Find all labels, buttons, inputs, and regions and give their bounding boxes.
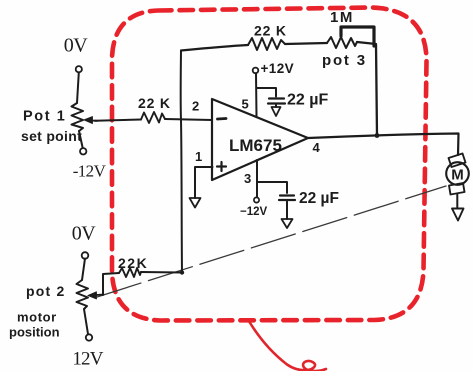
svg-text:1M: 1M: [330, 9, 354, 26]
svg-text:22 µF: 22 µF: [299, 190, 339, 207]
resistor 22K (from pot 2): [119, 268, 141, 277]
motor M top brush: [449, 154, 466, 168]
svg-text:−12V: −12V: [240, 206, 268, 218]
pot 1 resistor body: [72, 103, 84, 131]
wire feedback mid: [285, 43, 327, 44]
motor ground wire: [456, 194, 458, 209]
wire pot1 wiper to 22K: [95, 120, 141, 121]
wire pot1 bottom: [79, 131, 83, 148]
svg-text:Pot 1: Pot 1: [23, 109, 66, 125]
svg-text:set point: set point: [21, 128, 82, 144]
svg-text:motor: motor: [17, 310, 57, 325]
svg-text:1: 1: [195, 149, 202, 164]
pot 3 wiper link: [341, 27, 374, 46]
svg-text:5: 5: [242, 97, 249, 112]
pot 3 resistor body (1M): [327, 37, 357, 48]
motor bottom brush: [449, 183, 465, 195]
svg-text:-12V: -12V: [73, 162, 107, 181]
wire 22K pot2 to node rail: [141, 271, 182, 274]
wire cap C2 to ground: [286, 202, 288, 220]
motor M body: [446, 162, 469, 185]
pot 1 wiper arrow: [88, 119, 97, 122]
svg-text:2: 2: [192, 99, 199, 114]
svg-text:pot 3: pot 3: [322, 52, 367, 69]
svg-text:4: 4: [313, 140, 321, 155]
inverting node rail wire: [181, 51, 182, 273]
svg-text:3: 3: [244, 171, 251, 186]
ground (pin 1): [190, 198, 201, 208]
pot 2 resistor body: [77, 280, 89, 309]
pot 2 top terminal: [82, 252, 89, 259]
svg-text:12V: 12V: [72, 349, 103, 370]
wire feedback top left: [181, 45, 248, 51]
pot 1 top terminal: [76, 66, 82, 72]
ground (C2): [282, 219, 293, 228]
mechanical coupling dashed line (motor to pot 2): [97, 186, 446, 297]
svg-text:22K: 22K: [118, 255, 148, 271]
-12V terminal: [254, 197, 259, 202]
svg-text:0V: 0V: [72, 223, 97, 245]
svg-text:+12V: +12V: [261, 61, 295, 76]
svg-text:22 µF: 22 µF: [287, 92, 328, 109]
red callout arrow: [250, 322, 327, 371]
svg-text:0V: 0V: [64, 35, 89, 57]
op-amp plus sign: [217, 162, 226, 171]
pin 3 supply wire: [256, 160, 258, 197]
pin 5 supply wire: [255, 74, 258, 118]
pin 1 wire to ground: [195, 167, 213, 198]
svg-text:LM675: LM675: [229, 136, 282, 155]
op-amp minus sign: [218, 117, 227, 120]
wire pot1 top: [77, 73, 79, 104]
svg-text:position: position: [9, 325, 60, 340]
svg-text:22 K: 22 K: [138, 95, 171, 111]
capacitor C1 22uF plates: [268, 99, 285, 104]
wire pot3 to output node: [357, 42, 377, 136]
+12V terminal: [253, 68, 259, 74]
resistor 22K (feedback): [248, 38, 285, 50]
dashed enclosure box (red): [112, 8, 427, 321]
ground (C1): [272, 107, 281, 116]
svg-text:22 K: 22 K: [254, 23, 287, 39]
output wire pin 4 to motor: [308, 134, 459, 156]
wire pot2 bottom: [84, 309, 88, 334]
wire pot2 top: [82, 259, 85, 281]
wire pin5 to cap C1: [257, 88, 277, 97]
wire pot2 wiper up: [103, 273, 119, 295]
wire pin3 to cap C2: [257, 182, 287, 193]
junction pot2 node: [180, 270, 184, 274]
capacitor C2 22uF plates: [279, 196, 295, 201]
ground (motor): [452, 209, 464, 221]
pot 1 bottom terminal: [80, 148, 86, 154]
op-amp U1 LM675 triangle: [212, 99, 308, 180]
junction output node: [375, 133, 380, 138]
resistor 22K (input from pot 1): [141, 112, 165, 123]
svg-text:pot 2: pot 2: [26, 283, 65, 299]
wire cap C1 to ground: [275, 105, 277, 107]
pot 2 wiper arrow: [92, 294, 104, 297]
pot 2 bottom terminal: [86, 334, 92, 340]
svg-text:M: M: [451, 167, 464, 184]
wire 22K to op-amp pin 2: [165, 119, 212, 120]
